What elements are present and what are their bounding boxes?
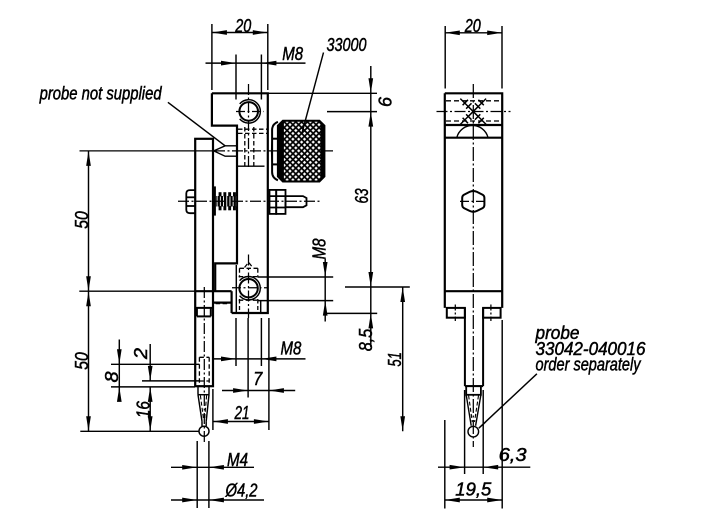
svg-text:order separately: order separately [536,353,642,374]
dimension M4 [171,441,254,508]
clamp sleeve hidden lines [238,127,267,166]
lower clamp centerlines [232,255,268,319]
probe cone (side view) [466,395,481,426]
svg-text:20: 20 [235,15,252,36]
dimension 7 [222,318,295,398]
dimension M8 (lower middle) [213,318,306,366]
dimension 19,5 [445,320,502,509]
clamp sleeve bottom [238,165,265,167]
svg-text:51: 51 [384,352,405,367]
svg-text:50: 50 [71,352,92,370]
clamp jaw dome [457,125,488,137]
dimension 6 / 63 / 8,5 column [269,66,410,347]
svg-text:Ø4,2: Ø4,2 [225,480,258,501]
dimension 2 [142,344,199,381]
holder body outline [195,93,268,313]
svg-text:21: 21 [234,402,250,423]
dimension Ø4,2 [171,499,264,501]
svg-text:19,5: 19,5 [455,479,492,500]
dimension 20 (right view) [445,26,502,89]
dimension 51 [402,287,404,431]
spring / thread between bar and body [216,192,236,210]
svg-text:M8: M8 [281,337,302,358]
hex nut + washer right of body on stud [270,190,286,214]
washer right of bar [213,186,216,215]
svg-text:2: 2 [130,347,151,360]
probe centerline [203,287,205,444]
dimension M8 (vertical, lower clamp thread) [258,259,333,322]
svg-text:8,5: 8,5 [355,328,376,351]
probe hidden thread in bar [199,357,209,386]
foot slit hidden line [216,303,230,305]
dimension 20 (top left) [212,24,268,90]
dimension 50 lower [86,291,91,306]
probe ball [199,426,209,436]
side view centerline [472,84,474,447]
svg-text:8: 8 [101,371,122,383]
probe axis centerline [80,150,334,152]
probe tip cone in clamp [214,146,237,156]
lower clamp sleeve edges [236,265,260,313]
pivot screw hex nut (left of bar) [186,190,195,213]
dimension 6,3 [438,390,530,474]
top clamp hole M8 [239,100,260,123]
thread cross mark [460,99,486,125]
svg-text:20: 20 [464,15,481,36]
svg-text:M8: M8 [309,238,330,259]
hex through hole [462,191,484,212]
dimension 50 upper [79,151,199,431]
bar clamp recess [195,308,213,317]
lower clamp hole M8 [239,277,260,300]
dimension 21 [213,318,269,430]
probe below bar (shank, cone, stem) [198,386,209,426]
knurled knob 33000 [278,121,325,182]
clamp bar (vertical plate) [195,139,213,386]
top hole centerlines [236,84,264,169]
svg-text:M4: M4 [227,449,248,470]
svg-text:50: 50 [71,211,92,229]
svg-text:16: 16 [132,401,153,419]
clamp screw hex nut behind knob [272,122,278,181]
dimension M8 (top) [206,55,306,100]
screw axis centerline [178,200,321,202]
clamp arm [465,308,483,386]
lower clamp hidden bore [239,262,259,310]
clamp feet [447,308,501,318]
side view outline [445,93,502,308]
knurled screw seen in section (top) [446,101,501,121]
svg-text:probe not supplied: probe not supplied [39,82,162,103]
dimension 8 [111,340,199,401]
svg-text:6: 6 [375,96,396,107]
dimension 16 [149,387,151,431]
svg-text:63: 63 [351,188,372,204]
threaded stud end [286,196,307,207]
probe ball (side view) [468,426,479,437]
svg-text:7: 7 [253,368,263,389]
svg-text:33000: 33000 [327,34,368,55]
probe collar (side view) [466,386,481,395]
foot screw centerlines [455,305,491,322]
svg-text:M8: M8 [282,43,303,64]
